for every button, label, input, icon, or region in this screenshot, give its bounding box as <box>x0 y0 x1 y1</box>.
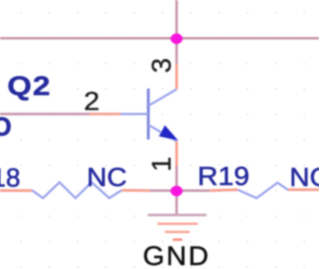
node junction top (magenta) <box>171 33 183 44</box>
pin number 2 (base) <box>84 86 100 115</box>
transistor Q2 emitter lead <box>148 125 176 141</box>
ground symbol stem <box>175 191 178 215</box>
pin 2 base pin stub <box>90 113 121 116</box>
ground net label GND <box>143 241 210 269</box>
svg-text:R19: R19 <box>198 161 250 191</box>
pin 3 collector pin stub <box>175 64 178 89</box>
wire base horizontal net <box>0 113 90 116</box>
svg-text:18: 18 <box>0 163 20 193</box>
net label NC right (partially off-canvas) <box>290 163 320 192</box>
label Q2 reference designator <box>7 72 51 102</box>
svg-text:3: 3 <box>146 58 176 73</box>
wire emitter to ground junction <box>175 166 178 191</box>
transistor Q2 base bar <box>147 89 150 140</box>
svg-text:GND: GND <box>143 241 210 269</box>
ground symbol bar 1 <box>148 214 207 217</box>
resistor R19 zigzag body <box>238 183 288 198</box>
svg-text:NC: NC <box>87 163 127 192</box>
pin stub resistor R18 right pin <box>122 189 150 192</box>
pin stub resistor R19 right pin to edge <box>288 188 319 191</box>
wire top horizontal net <box>0 37 319 40</box>
ground symbol bar 4 <box>173 238 182 240</box>
wire vertical stub above top junction <box>175 0 178 38</box>
node junction bottom at ground (magenta) <box>171 186 183 197</box>
net label NC left <box>87 163 127 192</box>
svg-text:NC: NC <box>290 163 320 192</box>
ground symbol bar 2 <box>157 223 197 225</box>
svg-text:1: 1 <box>146 157 176 172</box>
svg-text:Q2: Q2 <box>7 72 51 102</box>
pin 1 emitter pin stub <box>175 141 178 166</box>
resistor R18 zigzag body <box>32 182 122 198</box>
transistor Q2 base lead <box>121 113 149 115</box>
wire bottom right net (junction to resistor R19) <box>177 189 210 192</box>
transistor Q2 collector lead <box>148 89 176 106</box>
ground symbol bar 3 <box>165 231 190 233</box>
transistor Q2 emitter arrow <box>160 126 177 139</box>
svg-text:O: O <box>0 114 12 142</box>
pin stub resistor R18 left pin <box>0 189 32 192</box>
label R19 reference designator <box>198 161 250 191</box>
svg-text:2: 2 <box>84 86 100 115</box>
wire collector vertical segment <box>175 38 178 64</box>
label R18 reference (partially off-canvas) <box>0 163 20 193</box>
pin stub resistor R19 left pin <box>210 188 238 192</box>
wire bottom left net (resistor R18 to junction) <box>150 189 177 192</box>
